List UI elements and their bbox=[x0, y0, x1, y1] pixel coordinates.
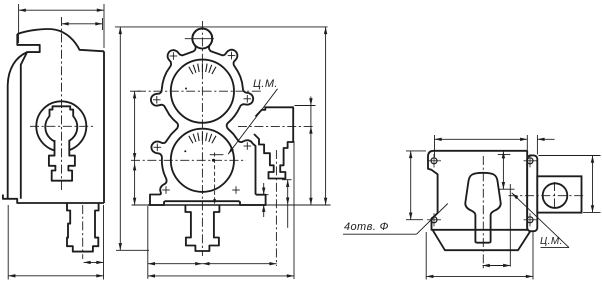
right view: corner hole bottom-right bbox=[524, 213, 537, 226]
right view: centre-of-mass cross bbox=[499, 184, 515, 267]
middle view: upper bore knurl fan bbox=[185, 63, 216, 89]
middle view: side boss tenon centerline bbox=[275, 150, 277, 266]
right view: pear centerline bbox=[482, 156, 484, 269]
left view: overall width dimension (top) bbox=[19, 4, 104, 48]
right view: boss horizontal centerline bbox=[509, 195, 586, 197]
label 4 holes dia with leader bbox=[343, 204, 448, 235]
middle view: scalloped flange outline bbox=[150, 29, 266, 206]
middle view: overall height dimension (left) bbox=[116, 27, 149, 250]
right view: CM vertical position dimension bbox=[498, 151, 511, 189]
right view: corner hole top-right bbox=[524, 154, 537, 167]
middle view: bottom chained width dimension bbox=[148, 206, 277, 279]
middle view: block height dimension marks bbox=[262, 183, 269, 217]
left view: stepped tenon below bore bbox=[49, 140, 75, 181]
middle view: side boss horizontal centerline bbox=[238, 125, 315, 127]
middle view: lower bore horizontal centerline bbox=[131, 159, 246, 161]
left view: housing body outline (side view) bbox=[3, 29, 104, 203]
right view: label TsM bbox=[540, 236, 563, 247]
right view: CM offset dimension (bottom) bbox=[483, 264, 511, 267]
left view: foot offset dimension (bottom) bbox=[84, 205, 104, 280]
svg-text:4отв. Ф: 4отв. Ф bbox=[344, 221, 389, 233]
middle view: top boss circle bbox=[192, 29, 212, 49]
middle view: bottom overall width dimension bbox=[148, 141, 294, 279]
left view: foot centerline bbox=[82, 205, 84, 259]
middle view: upper bore horizontal centerline bbox=[137, 90, 262, 92]
middle view: centre-of-mass leader bbox=[228, 89, 277, 154]
middle view: boss tenon bottom extension tick bbox=[282, 179, 292, 181]
middle view: lower bore knurl fan bbox=[184, 132, 216, 152]
right view: height dimension (left) bbox=[406, 151, 426, 220]
right view: corner hole bottom-left bbox=[427, 213, 441, 226]
middle view: tenon-to-flange dimension bbox=[286, 180, 289, 228]
left view: inner bore circle bbox=[45, 116, 77, 143]
top extension line over views bbox=[115, 26, 328, 28]
middle view: vertical centerline bbox=[201, 21, 203, 256]
right view: hole spacing dimension (top) bbox=[435, 135, 555, 157]
left view: side-boss bore circle (outer) bbox=[36, 101, 86, 151]
middle view: overall height dimension (right) bbox=[324, 27, 327, 205]
svg-text:Ц.М.: Ц.М. bbox=[253, 78, 278, 90]
right view: side boss block bbox=[537, 176, 581, 212]
middle view: top boss horizontal centerline bbox=[185, 38, 214, 40]
right view: corner hole top-left bbox=[427, 154, 441, 168]
right view: bottom trapezoid foot bbox=[433, 230, 532, 250]
right view: pear-shaped foot boss bbox=[465, 173, 500, 243]
right view: CM leader bbox=[512, 193, 569, 248]
right view: body outline (top view) bbox=[428, 151, 527, 230]
left view: bore horizontal centerline bbox=[30, 125, 94, 127]
middle view: centre-of-mass cross bbox=[210, 153, 224, 205]
svg-text:Ц.М.: Ц.М. bbox=[540, 236, 563, 247]
left view: keyway cap inside bore bbox=[50, 106, 74, 117]
left view: bore vertical centerline bbox=[61, 17, 63, 191]
right view: boss height dimension (right) bbox=[539, 156, 601, 213]
middle view: foot tenon bbox=[185, 205, 219, 251]
middle view: upper bore bbox=[171, 60, 234, 123]
left view: overall width dimension (bottom) bbox=[8, 205, 103, 280]
middle view: label TsM bbox=[253, 78, 278, 90]
right view: boss vertical centerline bbox=[554, 182, 556, 210]
middle view: lower bore bbox=[171, 129, 234, 192]
right view: side plate bbox=[527, 155, 537, 231]
middle view: bolt hole crosses bbox=[153, 52, 251, 194]
middle view: bottom flange edge line bbox=[132, 204, 331, 206]
right view: side boss bore bbox=[543, 183, 568, 208]
middle view: bore spacing dimensions (inner left) bbox=[130, 91, 141, 205]
right view: overall width dimension (bottom) bbox=[426, 232, 533, 280]
left view: foot tenon below housing bbox=[67, 203, 99, 252]
left view: width dimension from centerline (top) bbox=[62, 18, 103, 30]
middle view: side boss block bbox=[254, 107, 293, 178]
middle view: boss top-to-centerline dimension (right) bbox=[295, 97, 316, 206]
